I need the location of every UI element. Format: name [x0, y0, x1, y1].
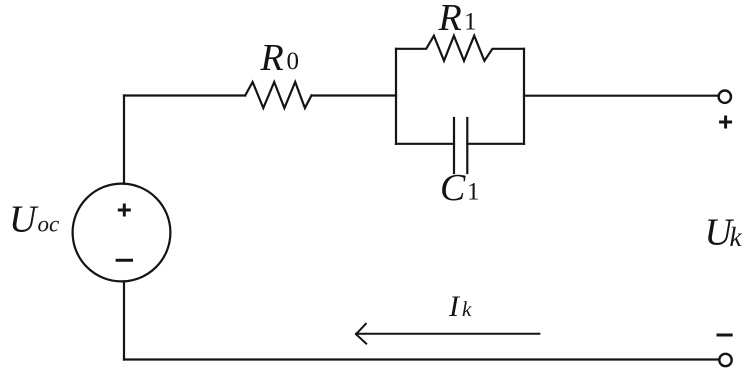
wire box to + terminal	[524, 95, 718, 97]
wire top horizontal (left corner to R0)	[124, 94, 245, 96]
wire bottom horizontal	[124, 358, 719, 360]
svg-text:1: 1	[464, 9, 477, 36]
minus sign inside source	[116, 259, 133, 262]
RC box left edge	[395, 49, 397, 144]
minus sign at bottom terminal	[717, 334, 733, 337]
svg-text:C: C	[440, 167, 466, 209]
svg-text:R: R	[438, 0, 462, 39]
plus sign at top terminal	[719, 116, 732, 129]
capacitor C1 plates	[454, 118, 467, 173]
RC box right edge	[523, 49, 525, 144]
wire R0 to RC box	[312, 94, 397, 96]
svg-text:0: 0	[287, 48, 300, 75]
svg-text:I: I	[448, 290, 461, 323]
svg-text:R: R	[260, 37, 284, 79]
terminal − (bottom right)	[719, 354, 731, 366]
svg-text:oc: oc	[38, 212, 60, 237]
RC box bottom edge right of C1	[467, 143, 524, 145]
svg-text:k: k	[462, 297, 472, 321]
current arrow Ik	[356, 324, 539, 344]
svg-text:k: k	[730, 222, 743, 252]
resistor R0	[245, 82, 311, 108]
wire source − to bottom left corner	[123, 281, 125, 359]
wire left vertical top (node A to source +)	[123, 96, 125, 184]
plus sign inside source	[118, 204, 131, 217]
svg-text:U: U	[9, 199, 39, 241]
terminal + (top right)	[719, 91, 731, 103]
voltage source U_oc circle	[73, 184, 171, 282]
svg-text:1: 1	[467, 179, 480, 206]
resistor R1 (top edge of box)	[396, 36, 524, 61]
RC box bottom edge left of C1	[396, 143, 454, 145]
